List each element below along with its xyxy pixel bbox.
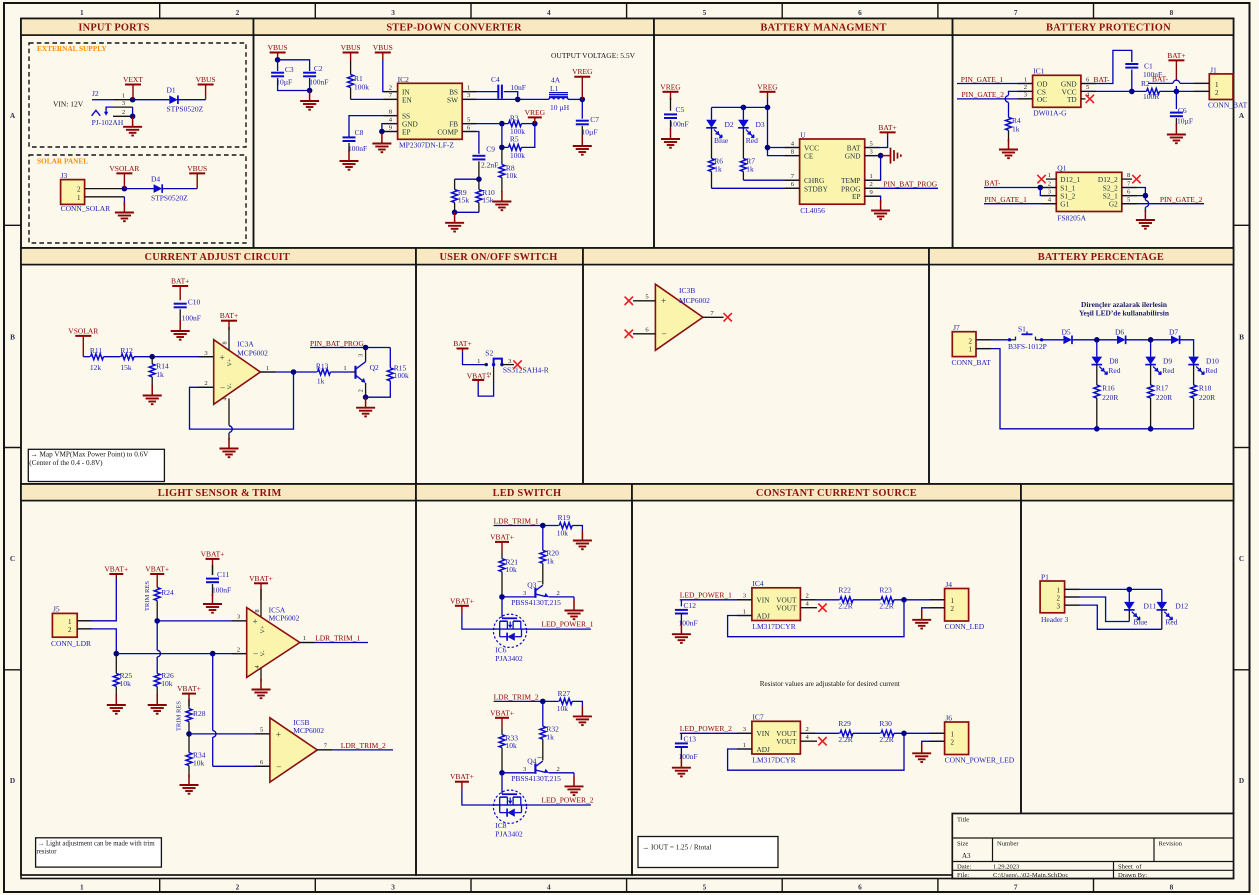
resistor R4 R4	[1006, 116, 1022, 134]
op-amp IC5A MCP6002	[247, 608, 300, 678]
power VREG	[572, 67, 593, 99]
svg-text:STPS0520Z: STPS0520Z	[151, 193, 188, 202]
junction	[154, 618, 160, 624]
svg-text:S2: S2	[485, 349, 493, 358]
svg-text:−: −	[220, 383, 225, 393]
svg-text:8: 8	[1170, 883, 1174, 892]
resistor R26 R26	[154, 671, 174, 688]
power BAT+	[171, 277, 189, 301]
svg-text:IC4: IC4	[752, 579, 764, 588]
svg-text:1: 1	[537, 756, 543, 759]
svg-text:C1: C1	[1144, 62, 1153, 71]
svg-text:BATTERY MANAGMENT: BATTERY MANAGMENT	[760, 22, 886, 33]
svg-text:S1: S1	[1018, 325, 1026, 334]
svg-text:C: C	[10, 554, 15, 563]
wire	[104, 356, 121, 358]
no-connect X	[818, 737, 826, 745]
svg-text:C3: C3	[285, 65, 294, 74]
resistor R7 R7	[740, 157, 755, 174]
resistor R2 R2	[1141, 79, 1160, 101]
svg-text:IC7: IC7	[752, 713, 764, 722]
wire	[1065, 588, 1162, 590]
svg-text:MCP6002: MCP6002	[293, 726, 324, 735]
resistor R34 R34	[186, 751, 206, 768]
ground	[252, 679, 271, 698]
svg-text:BATTERY PERCENTAGE: BATTERY PERCENTAGE	[1038, 252, 1164, 263]
svg-text:220R: 220R	[1199, 393, 1215, 402]
svg-text:CONN_LDR: CONN_LDR	[51, 639, 91, 648]
wire	[157, 620, 247, 622]
svg-text:SOLAR PANEL: SOLAR PANEL	[37, 157, 88, 166]
junction	[580, 97, 586, 103]
svg-text:10µF: 10µF	[276, 78, 292, 87]
power VREG	[660, 82, 681, 100]
svg-text:C4: C4	[491, 75, 500, 84]
resistor R12 R12	[120, 346, 134, 372]
svg-text:EXTERNAL SUPPLY: EXTERNAL SUPPLY	[37, 44, 107, 53]
wire BAT- with hop	[1148, 82, 1173, 84]
svg-text:Sheet of: Sheet of	[1118, 863, 1142, 870]
svg-text:R22: R22	[838, 586, 851, 595]
wire	[922, 741, 945, 750]
power VEXT	[123, 75, 143, 100]
wire	[494, 525, 543, 527]
junction	[1174, 89, 1180, 95]
junction	[499, 770, 505, 776]
svg-text:1: 1	[266, 365, 269, 372]
svg-text:R11: R11	[90, 346, 102, 355]
svg-text:D: D	[1239, 776, 1244, 785]
signal ground (GND pin)	[881, 148, 901, 164]
svg-text:VBUS: VBUS	[187, 164, 207, 173]
resistor R27 R27	[557, 689, 572, 713]
svg-text:100nF: 100nF	[182, 313, 201, 322]
wire	[543, 525, 559, 527]
svg-text:LDR_TRIM_2: LDR_TRIM_2	[494, 692, 539, 701]
svg-text:100k: 100k	[510, 151, 525, 160]
wire	[501, 552, 503, 559]
svg-text:J7: J7	[953, 323, 960, 332]
svg-text:10µF: 10µF	[1177, 117, 1193, 126]
power VBUS	[187, 164, 207, 189]
resistor R22 R22	[838, 586, 853, 611]
svg-text:PIN_BAT_PROG: PIN_BAT_PROG	[883, 179, 937, 188]
junction	[499, 145, 505, 151]
svg-text:VBAT+: VBAT+	[490, 708, 514, 717]
junction	[901, 731, 907, 737]
DW01A-G pin names	[1037, 80, 1077, 104]
junction	[540, 699, 546, 705]
resistor R5 R5	[509, 135, 526, 160]
wire	[188, 699, 190, 709]
wire	[330, 371, 351, 373]
no-connect X	[818, 604, 826, 612]
ground	[220, 438, 239, 457]
svg-text:1: 1	[537, 580, 543, 583]
svg-text:15k: 15k	[482, 195, 494, 204]
svg-text:3: 3	[1057, 602, 1061, 610]
svg-text:ADJ: ADJ	[757, 745, 771, 754]
svg-text:VREG: VREG	[525, 108, 546, 117]
DW01A-G pin numbers	[1024, 76, 1090, 98]
ruler row letters	[10, 111, 1245, 785]
junction	[379, 129, 385, 135]
svg-text:P1: P1	[1041, 573, 1049, 582]
svg-text:BAT-: BAT-	[984, 179, 1000, 188]
svg-text:1: 1	[80, 8, 84, 17]
svg-text:D8: D8	[1109, 357, 1118, 366]
svg-text:10nF: 10nF	[511, 83, 526, 92]
IC2 pin names	[402, 88, 458, 137]
power VBAT+	[145, 565, 169, 588]
svg-text:VEXT: VEXT	[123, 75, 143, 84]
LED D8 Red	[1092, 357, 1108, 375]
wire	[680, 732, 752, 734]
svg-text:Red: Red	[1165, 617, 1177, 626]
svg-text:D3: D3	[756, 120, 765, 129]
junction	[210, 651, 216, 657]
ground	[340, 151, 359, 170]
wire	[894, 599, 945, 601]
svg-text:2: 2	[806, 726, 809, 733]
LED D11 Blue	[1124, 602, 1140, 620]
wire	[1150, 398, 1152, 429]
svg-text:CONN_BAT: CONN_BAT	[1208, 101, 1248, 110]
svg-text:CONN_BAT: CONN_BAT	[952, 358, 992, 367]
wire hop	[1005, 96, 1008, 103]
svg-text:IC2: IC2	[398, 75, 410, 84]
wire	[1008, 130, 1010, 142]
svg-text:CURRENT ADJUST CIRCUIT: CURRENT ADJUST CIRCUIT	[145, 252, 290, 263]
svg-text:4: 4	[547, 8, 551, 17]
section panel (indicator LEDs)	[1021, 484, 1234, 814]
svg-text:PIN_GATE_1: PIN_GATE_1	[984, 195, 1027, 204]
ground	[565, 600, 584, 619]
svg-text:C6: C6	[1178, 106, 1187, 115]
svg-text:MCP6002: MCP6002	[679, 296, 710, 305]
svg-text:+: +	[661, 296, 666, 306]
svg-text:D11: D11	[1144, 601, 1157, 610]
svg-text:(Center of the 0.4 - 0.8V): (Center of the 0.4 - 0.8V)	[29, 459, 103, 467]
svg-text:C12: C12	[684, 601, 697, 610]
svg-text:1: 1	[951, 730, 955, 738]
svg-text:TRIM RES: TRIM RES	[176, 701, 183, 732]
wire	[1126, 339, 1171, 341]
svg-text:2: 2	[77, 186, 81, 194]
ground	[123, 116, 142, 135]
wire	[1150, 365, 1152, 385]
ground	[871, 200, 890, 219]
power BAT+	[453, 339, 471, 352]
svg-text:2: 2	[122, 109, 125, 116]
svg-text:100nF: 100nF	[212, 586, 231, 595]
svg-text:D7: D7	[1169, 328, 1178, 337]
svg-text:100k: 100k	[354, 83, 369, 92]
svg-text:VBAT+: VBAT+	[177, 684, 201, 693]
svg-text:1k: 1k	[1012, 125, 1020, 134]
wire	[156, 601, 158, 621]
IC7 pin numbers	[743, 726, 810, 749]
capacitor C11 C11	[206, 570, 231, 595]
section panel CONSTANT CURRENT SOURCE	[632, 484, 1021, 875]
svg-text:PBSS4130T,215: PBSS4130T,215	[511, 774, 561, 783]
svg-text:4: 4	[547, 883, 551, 892]
svg-text:CE: CE	[804, 152, 814, 161]
svg-text:LED_POWER_1: LED_POWER_1	[680, 591, 732, 600]
wire	[957, 83, 1033, 85]
wire	[502, 146, 509, 148]
ground	[445, 212, 464, 231]
svg-text:1: 1	[743, 608, 746, 615]
svg-text:Red: Red	[1205, 366, 1217, 375]
LED D2 Blue	[706, 120, 722, 138]
svg-text:LED_POWER_2: LED_POWER_2	[680, 724, 732, 733]
svg-text:−: −	[276, 762, 281, 772]
svg-text:15k: 15k	[458, 195, 470, 204]
power VBAT+	[249, 574, 273, 600]
ground	[565, 776, 584, 795]
svg-text:R28: R28	[193, 709, 206, 718]
feedback wire	[190, 372, 294, 429]
junction	[1038, 185, 1044, 191]
svg-text:10k: 10k	[161, 679, 173, 688]
junction	[275, 57, 281, 63]
svg-text:BAT+: BAT+	[1167, 51, 1185, 60]
capacitor C12 C12	[675, 601, 698, 628]
wire	[478, 381, 493, 396]
wire	[572, 701, 582, 706]
svg-text:J6: J6	[945, 713, 952, 722]
wire	[522, 124, 535, 148]
svg-text:C9: C9	[486, 145, 495, 154]
svg-text:10k: 10k	[506, 741, 518, 750]
junction	[499, 594, 505, 600]
switch S2 SS312SAH4-R	[477, 349, 549, 381]
svg-text:D2: D2	[725, 120, 734, 129]
wire	[1065, 605, 1162, 629]
wire	[711, 107, 713, 119]
svg-text:STDBY: STDBY	[804, 184, 829, 193]
svg-text:VSOLAR: VSOLAR	[109, 164, 139, 173]
wire	[1175, 86, 1177, 91]
svg-text:D12: D12	[1175, 601, 1188, 610]
junction	[149, 354, 155, 360]
power VBAT+	[472, 380, 484, 384]
svg-text:LM317DCYR: LM317DCYR	[752, 622, 795, 631]
junction	[291, 369, 297, 375]
wire	[115, 654, 117, 674]
svg-text:8: 8	[222, 341, 229, 344]
resistor R6 R6	[709, 157, 724, 174]
ground	[143, 385, 162, 404]
pin stub	[800, 740, 817, 742]
resistor R17 R17	[1148, 384, 1173, 402]
svg-text:220R: 220R	[1156, 393, 1172, 402]
resistor R19 R19	[557, 513, 572, 537]
junction	[1143, 193, 1149, 199]
svg-text:R12: R12	[120, 346, 133, 355]
wire	[865, 155, 881, 157]
svg-text:PIN_GATE_1: PIN_GATE_1	[961, 75, 1004, 84]
svg-text:1k: 1k	[546, 557, 554, 566]
svg-text:VREG: VREG	[660, 82, 681, 91]
ground	[999, 139, 1018, 158]
svg-text:BAT+: BAT+	[171, 277, 189, 286]
wire	[501, 727, 503, 734]
svg-text:1: 1	[122, 93, 125, 100]
svg-text:1k: 1k	[546, 732, 554, 741]
svg-text:Revision: Revision	[1159, 841, 1183, 848]
ground	[672, 624, 691, 643]
wire	[351, 98, 398, 100]
svg-text:VOUT: VOUT	[776, 737, 797, 746]
wire (gate)	[501, 773, 503, 794]
wire	[1122, 203, 1204, 205]
svg-text:C2: C2	[314, 64, 323, 73]
wire	[1180, 340, 1194, 357]
svg-text:LDR_TRIM_2: LDR_TRIM_2	[341, 741, 386, 750]
connector J6 CONN_POWER_LED	[945, 722, 969, 755]
ground	[672, 757, 691, 776]
svg-text:R5: R5	[510, 135, 519, 144]
note box	[638, 837, 778, 868]
IC7 pin names	[757, 729, 798, 754]
IC4 pin names	[757, 596, 798, 621]
wire	[350, 88, 352, 100]
svg-text:PIN_GATE_2: PIN_GATE_2	[962, 90, 1005, 99]
diode D1 STPS0520Z	[169, 95, 178, 104]
svg-text:VIN: 12V: VIN: 12V	[53, 100, 84, 109]
wire	[462, 91, 498, 93]
no-connect X	[1037, 175, 1045, 183]
junction	[1094, 337, 1100, 343]
svg-text:B3FS-1012P: B3FS-1012P	[1008, 342, 1047, 351]
diode D7	[1171, 336, 1180, 345]
ground	[661, 129, 680, 148]
svg-text:LM317DCYR: LM317DCYR	[752, 756, 795, 765]
IC2 pin numbers	[389, 84, 471, 131]
svg-text:VOUT: VOUT	[776, 604, 797, 613]
ground	[573, 136, 592, 155]
svg-text:CONN_POWER_LED: CONN_POWER_LED	[945, 756, 1015, 765]
LED D9 Red	[1145, 357, 1161, 375]
dashed box EXTERNAL SUPPLY	[29, 43, 246, 147]
IC3B pins	[645, 294, 714, 340]
op-amp IC3A MCP6002	[214, 340, 261, 405]
svg-text:BATTERY PROTECTION: BATTERY PROTECTION	[1046, 22, 1171, 33]
svg-text:EP: EP	[402, 128, 411, 137]
note box	[36, 838, 162, 867]
capacitor C3 C3	[271, 65, 294, 87]
svg-text:2: 2	[969, 337, 973, 345]
connector J7 CONN_BAT	[952, 332, 976, 357]
wire	[278, 78, 310, 91]
ground	[1167, 124, 1186, 143]
capacitor C9 C9	[472, 145, 498, 170]
svg-text:−: −	[662, 329, 667, 339]
resistor R9 R9	[452, 188, 470, 204]
resistor R28 R28	[186, 709, 206, 722]
svg-text:100R: 100R	[1143, 92, 1159, 101]
resistor R8 R8	[499, 163, 518, 180]
svg-text:1: 1	[77, 194, 81, 202]
svg-text:Drawn By:: Drawn By:	[1118, 872, 1147, 879]
svg-text:Header 3: Header 3	[1041, 615, 1069, 624]
svg-text:2: 2	[557, 590, 560, 597]
capacitor C7 C7	[576, 115, 600, 137]
diode D4 STPS0520Z	[154, 184, 163, 193]
ground	[573, 530, 592, 549]
power BAT+	[220, 311, 238, 330]
op-amp IC5B MCP6002	[270, 718, 317, 782]
wire	[132, 107, 134, 116]
svg-text:EP: EP	[852, 192, 861, 201]
svg-text:100nF: 100nF	[670, 120, 689, 129]
wire	[462, 98, 549, 100]
wire bus	[116, 653, 246, 655]
svg-text:VBAT+: VBAT+	[145, 565, 169, 574]
svg-text:2: 2	[951, 738, 955, 746]
wire	[478, 161, 480, 179]
MOSFET IC8 PJA3402	[493, 790, 526, 839]
ground	[115, 202, 134, 221]
wire	[680, 747, 682, 759]
capacitor C13 C13	[675, 734, 698, 761]
resistor R21 R21	[499, 558, 518, 574]
ground	[573, 706, 592, 725]
svg-text:VBAT+: VBAT+	[249, 574, 273, 583]
section panel LIGHT SENSOR & TRIM	[21, 484, 416, 875]
junction	[1148, 426, 1154, 432]
svg-text:G1: G1	[1060, 200, 1069, 209]
wire	[189, 733, 270, 735]
wire	[156, 686, 158, 697]
svg-text:Q3: Q3	[527, 581, 536, 590]
note box	[28, 449, 164, 481]
power VBAT+	[201, 549, 225, 575]
connector J4 CONN_LED	[945, 589, 969, 622]
wire	[984, 203, 1056, 205]
svg-text:PIN_BAT_PROG: PIN_BAT_PROG	[310, 339, 364, 348]
ground	[912, 609, 931, 628]
wire	[1161, 589, 1163, 602]
wire	[712, 187, 800, 189]
wire	[572, 526, 582, 531]
svg-text:10k: 10k	[120, 679, 132, 688]
wire	[77, 629, 116, 654]
svg-text:D10: D10	[1206, 357, 1219, 366]
wire	[383, 60, 398, 92]
svg-text:2: 2	[557, 766, 560, 773]
wire	[115, 686, 117, 697]
svg-text:+: +	[253, 616, 258, 626]
svg-text:OUTPUT VOLTAGE: 5.5V: OUTPUT VOLTAGE: 5.5V	[551, 51, 636, 60]
svg-text:1k: 1k	[746, 165, 754, 174]
wire	[768, 147, 800, 149]
junction	[452, 210, 458, 216]
IC IC4 LM317DCYR	[752, 588, 801, 621]
svg-text:PIN_GATE_2: PIN_GATE_2	[1160, 195, 1203, 204]
svg-text:BAT-: BAT-	[1152, 74, 1168, 83]
wire	[501, 147, 503, 164]
power VSOLAR	[109, 164, 139, 189]
svg-text:1: 1	[303, 635, 306, 642]
ground	[492, 191, 511, 210]
svg-text:D9: D9	[1163, 357, 1172, 366]
ground	[203, 594, 222, 613]
wire	[179, 309, 181, 322]
svg-text:INPUT PORTS: INPUT PORTS	[78, 22, 149, 33]
